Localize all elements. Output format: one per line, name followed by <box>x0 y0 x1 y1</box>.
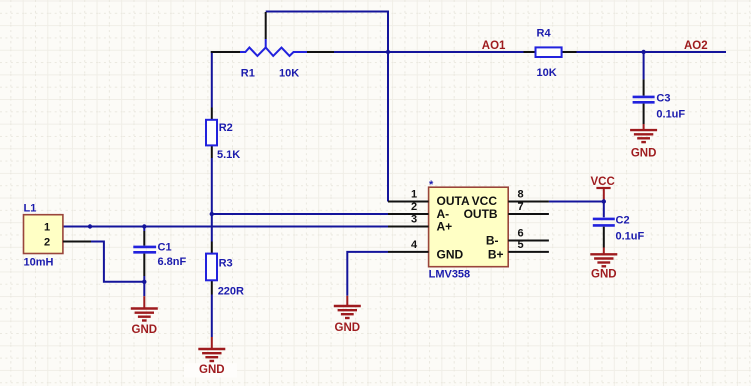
wire: op-amp pin8 to VCC node <box>549 201 604 203</box>
junction: VCC/C2 node <box>602 199 606 203</box>
svg-text:1: 1 <box>44 222 50 234</box>
resistor R2 <box>206 108 240 162</box>
capacitor C3 <box>633 79 686 124</box>
wire: main output horizontal left part (R1 to R4) <box>334 51 524 53</box>
wire: C1 bottom to ground node <box>143 276 145 296</box>
svg-text:GND: GND <box>437 248 464 262</box>
resistor R1 (potentiometer zigzag with wiper) <box>211 12 334 80</box>
pin 1 (OUTA) <box>388 189 470 209</box>
svg-text:6.8nF: 6.8nF <box>158 256 187 268</box>
svg-text:GND: GND <box>631 148 657 160</box>
svg-text:R4: R4 <box>537 28 552 40</box>
svg-text:1: 1 <box>411 189 417 201</box>
resistor R3 <box>206 242 244 298</box>
svg-text:A+: A+ <box>437 220 453 234</box>
resistor R4 <box>524 28 577 80</box>
power port VCC <box>591 176 615 201</box>
svg-text:B+: B+ <box>488 248 504 262</box>
svg-text:10K: 10K <box>279 68 299 80</box>
ground under C1 <box>131 296 158 336</box>
svg-text:GND: GND <box>591 268 617 280</box>
junction: feedback/output node <box>386 50 390 54</box>
wire: C1 top tap from A+ line <box>143 227 145 232</box>
junction: AO2/C3 node <box>641 50 645 54</box>
capacitor C2 <box>593 215 645 248</box>
svg-text:*: * <box>429 179 434 191</box>
wire: output node down to C3 <box>643 52 645 79</box>
svg-text:B-: B- <box>486 234 499 248</box>
svg-text:AO2: AO2 <box>684 40 708 52</box>
pin 5 (B+) <box>488 239 549 262</box>
junction: R2/R3 node to A- <box>210 212 214 216</box>
pin 3 (A+) <box>388 214 452 234</box>
wire: VCC node down to C2 <box>603 202 605 218</box>
wire: L1 pin2 route down and right to C1 bottom <box>91 242 144 282</box>
svg-text:R2: R2 <box>219 122 233 134</box>
svg-text:4: 4 <box>411 239 418 251</box>
svg-text:0.1uF: 0.1uF <box>656 109 685 121</box>
svg-text:R1: R1 <box>241 68 255 80</box>
svg-text:5: 5 <box>518 239 524 251</box>
wire: feedback loop top, from R1 wiper to output node, down to pin1 <box>266 12 388 202</box>
ground under R3 <box>184 337 237 378</box>
svg-text:0.1uF: 0.1uF <box>616 231 645 243</box>
svg-text:C3: C3 <box>656 93 670 105</box>
wire: R2/R3 node to op-amp pin2 (A-) <box>212 213 388 215</box>
svg-text:8: 8 <box>518 189 524 201</box>
svg-text:LMV358: LMV358 <box>429 269 471 281</box>
capacitor C1 <box>133 231 186 276</box>
junction: C1 top on A+ line <box>142 224 146 228</box>
pin 2 (A-) <box>388 201 449 221</box>
svg-text:AO1: AO1 <box>482 40 506 52</box>
op-amp U1 LMV358 body <box>429 179 509 281</box>
junction: C1 bottom node <box>142 280 146 284</box>
pin 7 (OUTB) <box>464 201 549 221</box>
ground under C3 <box>630 124 657 160</box>
svg-text:OUTB: OUTB <box>464 207 498 221</box>
svg-text:L1: L1 <box>24 203 37 215</box>
wire: op-amp pin4 route to ground <box>347 252 388 296</box>
svg-text:10K: 10K <box>537 67 557 79</box>
svg-text:7: 7 <box>518 201 524 213</box>
pin 4 (GND) <box>388 239 464 262</box>
ground under op-amp pin4 <box>334 296 361 334</box>
wire: L1 pin1 row to op-amp pin3 (A+) <box>63 226 388 228</box>
svg-text:220R: 220R <box>218 286 244 298</box>
junction: L1 pin1 wire dot A <box>88 224 92 228</box>
svg-text:C1: C1 <box>158 242 172 254</box>
svg-text:GND: GND <box>199 364 225 376</box>
pin 8 (VCC) <box>472 189 549 209</box>
svg-text:6: 6 <box>518 228 524 240</box>
wire: main output horizontal right part (R4 to AO2) <box>577 51 727 53</box>
wire: R2 bottom to R3 top (through node at pin2 row) <box>211 158 213 242</box>
svg-text:C2: C2 <box>616 215 630 227</box>
pin 6 (B-) <box>486 228 549 248</box>
svg-text:10mH: 10mH <box>24 257 54 269</box>
svg-text:GND: GND <box>335 322 361 334</box>
wire: left corner down to R2 <box>211 51 213 108</box>
svg-text:2: 2 <box>411 201 417 213</box>
svg-text:2: 2 <box>44 237 50 249</box>
svg-text:R3: R3 <box>219 258 233 270</box>
wire: R3 bottom to ground <box>211 295 213 338</box>
svg-text:VCC: VCC <box>591 176 615 188</box>
svg-text:5.1K: 5.1K <box>217 149 240 161</box>
inductor L1 (component body) <box>24 203 92 269</box>
svg-text:GND: GND <box>132 324 158 336</box>
ground under C2 <box>590 248 617 281</box>
svg-text:3: 3 <box>411 214 417 226</box>
